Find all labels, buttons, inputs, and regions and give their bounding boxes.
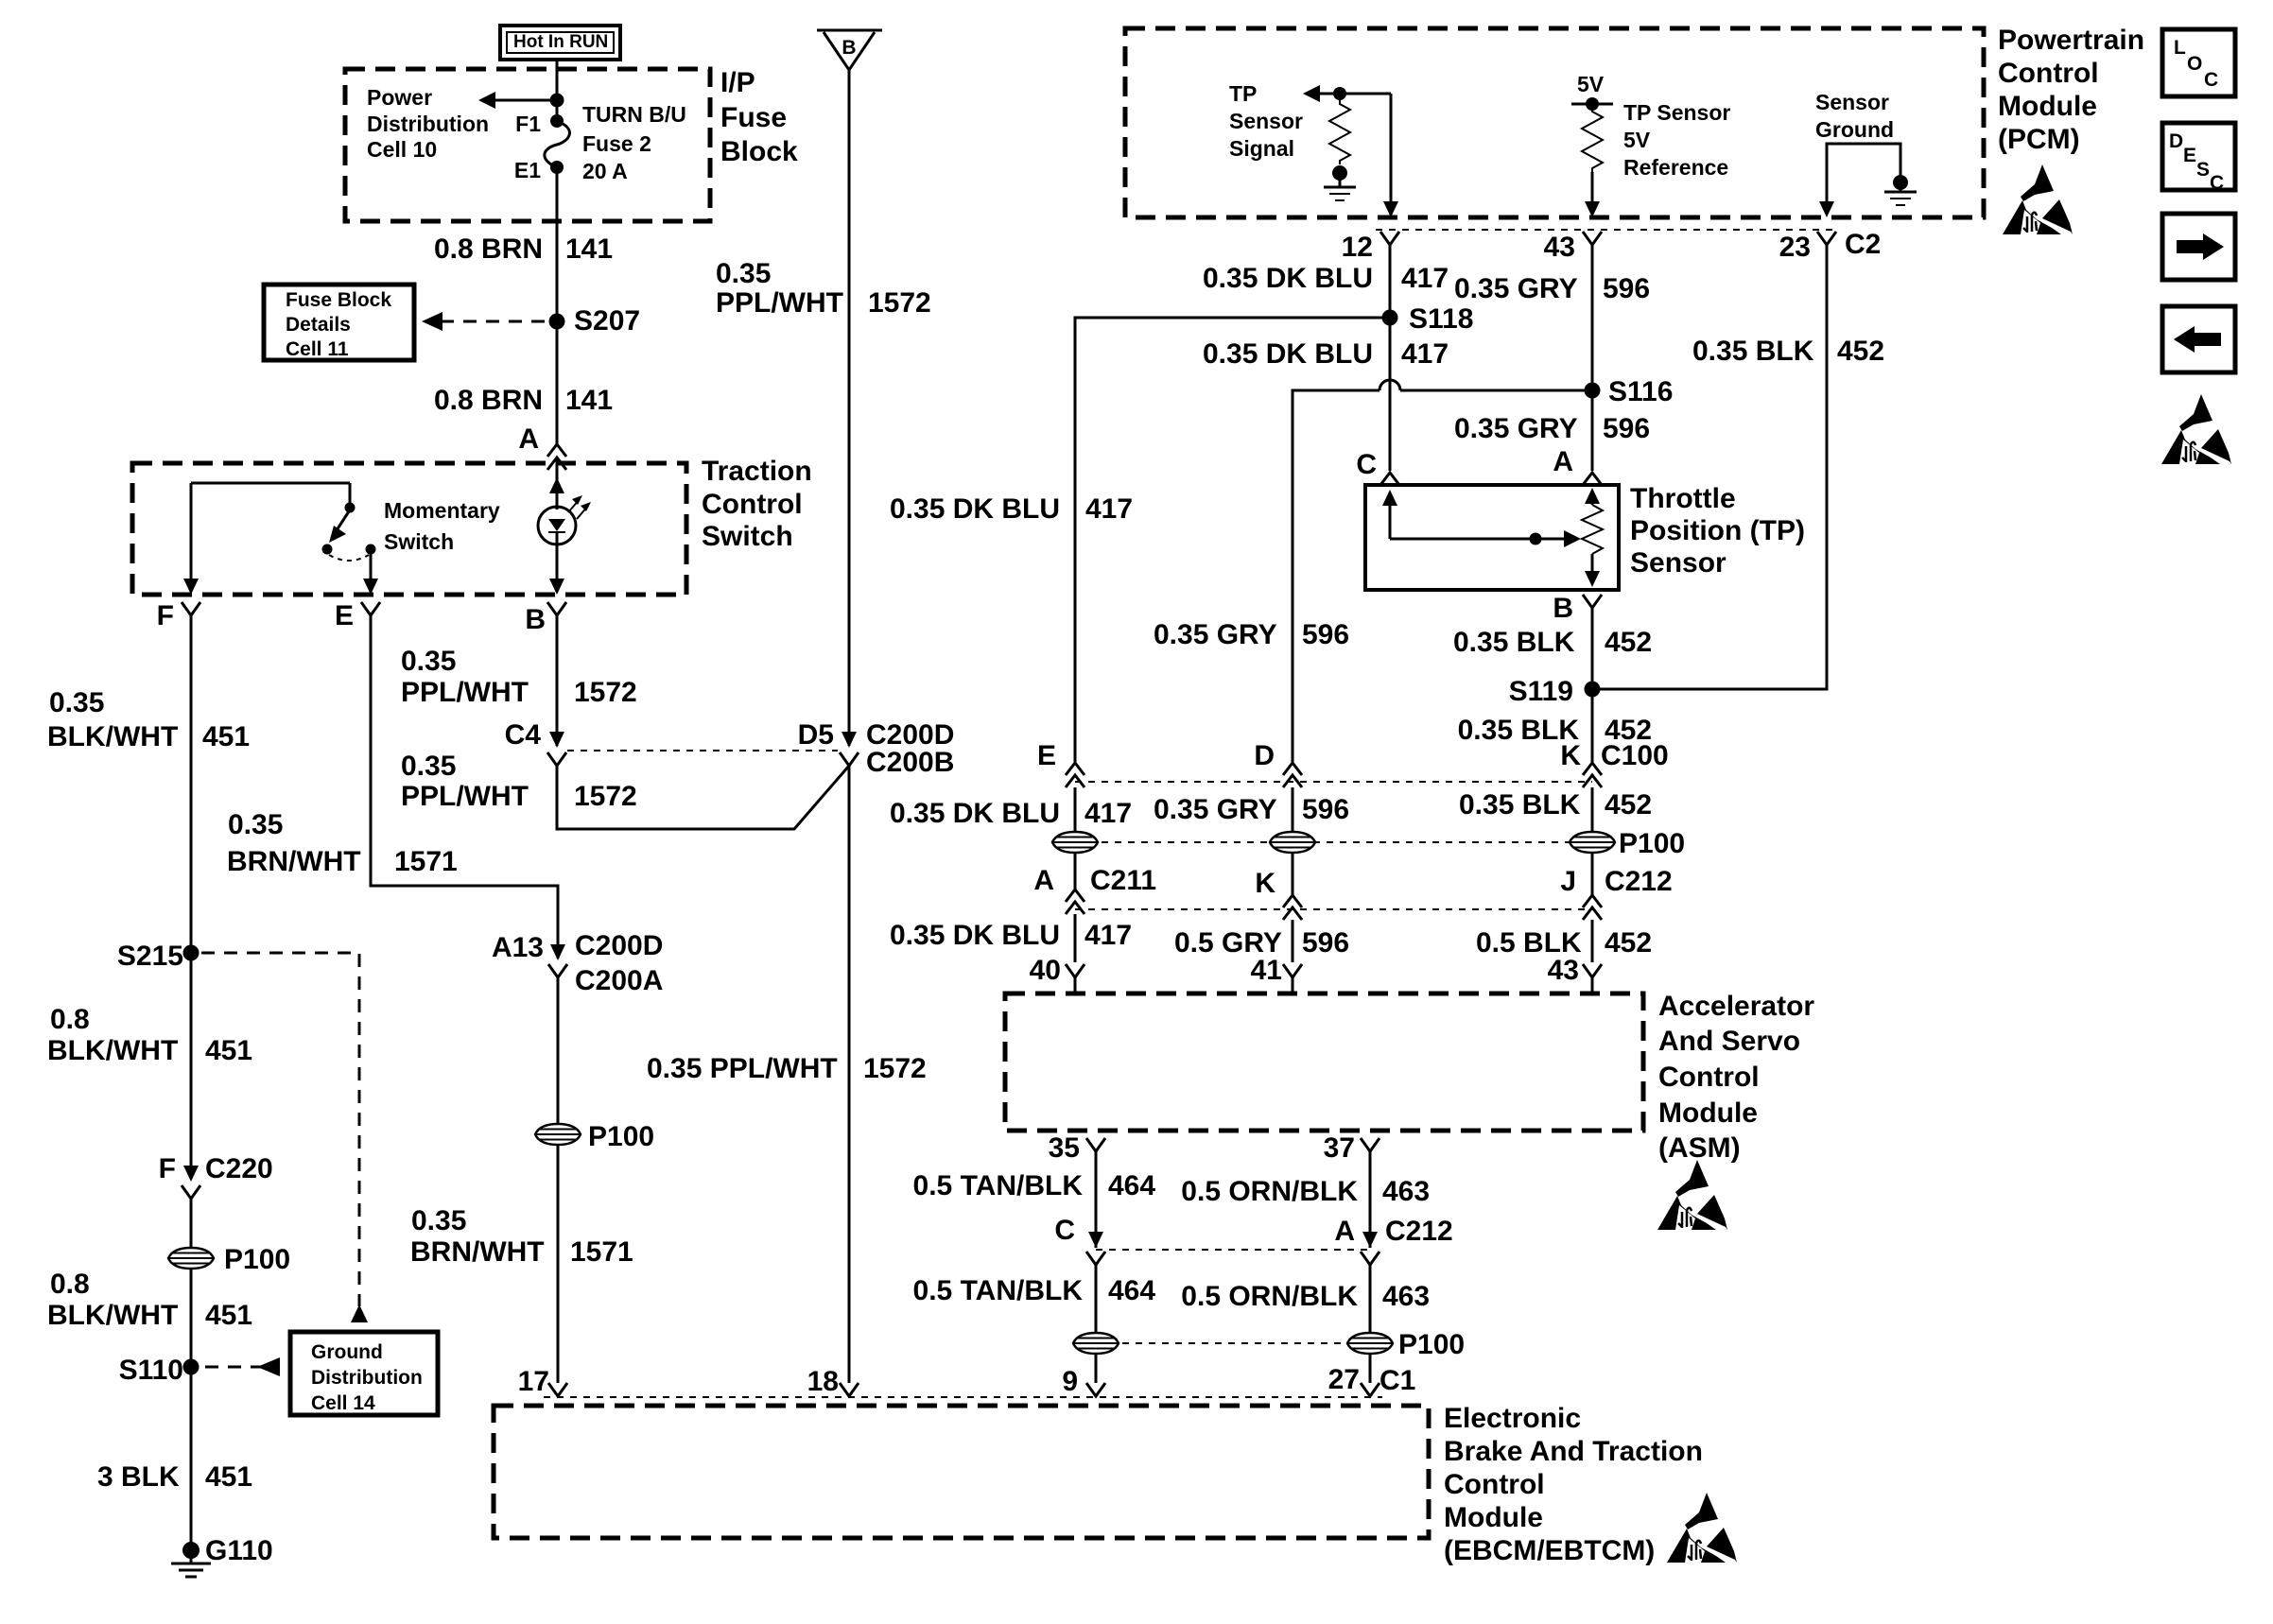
svg-text:C200B: C200B <box>866 747 954 778</box>
wire 463 C212 to EBCM pin 27 <box>1369 1265 1372 1383</box>
svg-text:C212: C212 <box>1385 1216 1453 1247</box>
svg-text:596: 596 <box>1302 794 1349 825</box>
svg-text:417: 417 <box>1084 920 1132 951</box>
svg-text:451: 451 <box>205 1300 252 1331</box>
svg-text:Block: Block <box>720 136 798 167</box>
svg-text:Module: Module <box>1998 91 2097 122</box>
label Traction Control Switch <box>702 456 812 552</box>
node junction at arrow <box>550 94 564 108</box>
svg-text:E: E <box>1037 740 1056 771</box>
svg-text:Signal: Signal <box>1229 136 1294 161</box>
pin C TP sensor <box>1356 449 1399 485</box>
label Electronic Brake And Traction Control Module EBCM EBTCM <box>1444 1403 1703 1566</box>
svg-text:41: 41 <box>1251 955 1282 986</box>
svg-text:O: O <box>2187 53 2202 75</box>
svg-text:P100: P100 <box>224 1244 290 1275</box>
svg-text:C2: C2 <box>1845 229 1881 260</box>
pin A C211 <box>1033 865 1156 914</box>
ground G110 <box>171 1535 273 1577</box>
svg-text:BLK/WHT: BLK/WHT <box>47 721 178 752</box>
module box I/P Fuse Block <box>345 69 710 221</box>
pass-through P100 on 452 <box>1570 828 1685 859</box>
svg-text:C211: C211 <box>1090 865 1156 896</box>
svg-text:0.35 DK BLU: 0.35 DK BLU <box>1203 338 1373 370</box>
svg-text:452: 452 <box>1605 627 1652 658</box>
wire 1572 from triangle B down <box>848 70 851 746</box>
pin B TP sensor <box>1553 593 1602 624</box>
label 0.35 BRN/WHT 1571 upper <box>227 809 458 877</box>
label C200D C200B <box>866 719 954 778</box>
svg-text:PPL/WHT: PPL/WHT <box>401 781 529 812</box>
resistor TP sensor signal pull-up <box>1329 100 1350 164</box>
wire 452 TP pin B to S119 <box>1591 608 1594 689</box>
svg-text:BRN/WHT: BRN/WHT <box>227 846 361 877</box>
internal wire 5V reference pin 43 <box>1585 172 1600 217</box>
svg-text:Hot In RUN: Hot In RUN <box>513 32 608 52</box>
label 0.35 BLK/WHT 451 <box>47 687 250 752</box>
svg-text:Control: Control <box>1658 1062 1760 1093</box>
svg-text:1572: 1572 <box>863 1053 927 1084</box>
node junction TP signal resistor <box>1333 87 1346 100</box>
svg-text:Cell 14: Cell 14 <box>311 1392 375 1414</box>
svg-text:0.35 DK BLU: 0.35 DK BLU <box>890 920 1060 951</box>
svg-text:417: 417 <box>1401 263 1449 294</box>
label 0.5 ORN/BLK 463 lower <box>1181 1281 1430 1312</box>
label Accelerator And Servo Control Module ASM <box>1658 991 1814 1164</box>
svg-text:27: 27 <box>1328 1364 1360 1395</box>
svg-text:452: 452 <box>1837 336 1884 367</box>
svg-text:D5: D5 <box>798 719 834 751</box>
node S118 <box>1382 303 1474 335</box>
svg-text:40: 40 <box>1030 955 1061 986</box>
wire 417 pin 12 to S118 <box>1389 245 1392 318</box>
label box Fuse Block Details Cell 11 <box>264 285 414 360</box>
label 0.35 DK BLU 417 fifth <box>890 920 1132 951</box>
svg-text:Reference: Reference <box>1623 155 1728 180</box>
svg-text:Switch: Switch <box>384 529 454 554</box>
wire 596 pin 43 to S116 <box>1591 245 1594 390</box>
pin J C212 <box>1560 866 1672 920</box>
svg-text:E1: E1 <box>514 158 541 182</box>
svg-text:464: 464 <box>1108 1275 1155 1306</box>
svg-text:F1: F1 <box>515 112 541 136</box>
pass-through P100 center <box>535 1121 654 1152</box>
svg-text:0.5 ORN/BLK: 0.5 ORN/BLK <box>1181 1176 1358 1207</box>
node S119 <box>1509 676 1601 707</box>
svg-text:S119: S119 <box>1509 676 1573 707</box>
wire 1571 E column <box>371 615 558 959</box>
dashed reference wire S215 to ground distribution <box>201 953 368 1322</box>
svg-text:12: 12 <box>1342 232 1373 263</box>
svg-text:0.35 DK BLU: 0.35 DK BLU <box>890 493 1060 525</box>
svg-text:E: E <box>2183 145 2196 166</box>
5V supply bar <box>1571 97 1613 111</box>
svg-text:1572: 1572 <box>868 287 931 319</box>
label 0.35 PPL/WHT 1572 mid <box>647 1053 927 1084</box>
label 0.5 BLK 452 fifth <box>1476 927 1652 959</box>
svg-text:Sensor: Sensor <box>1229 109 1303 133</box>
wire 141 S207 to traction switch <box>556 321 559 444</box>
svg-text:0.35 DK BLU: 0.35 DK BLU <box>1203 263 1373 294</box>
wire 452 K to C212 <box>1591 787 1594 895</box>
svg-text:Sensor: Sensor <box>1815 90 1889 114</box>
svg-text:0.8: 0.8 <box>50 1004 90 1035</box>
label 0.35 BLK 452 first <box>1692 336 1884 367</box>
svg-text:464: 464 <box>1108 1170 1155 1201</box>
svg-text:(PCM): (PCM) <box>1998 124 2080 155</box>
svg-text:TP Sensor: TP Sensor <box>1623 100 1730 125</box>
wire 452 C212 to ASM pin 43 <box>1591 920 1594 962</box>
pin 23 PCM <box>1779 232 1836 263</box>
svg-text:B: B <box>525 604 546 635</box>
svg-text:C220: C220 <box>205 1153 273 1184</box>
svg-text:0.35: 0.35 <box>228 809 283 840</box>
svg-text:Details: Details <box>286 314 351 336</box>
wire LED to pin B <box>556 544 559 579</box>
label 0.35 GRY 596 second <box>1454 413 1650 444</box>
wire 451 C220 to P100 <box>190 1199 193 1367</box>
wire from F leg inside switch <box>190 483 193 579</box>
svg-text:Power: Power <box>367 85 432 110</box>
svg-text:Throttle: Throttle <box>1630 483 1736 514</box>
wire 417 S118 branch to E column <box>1075 318 1390 762</box>
svg-text:0.35: 0.35 <box>401 646 456 677</box>
label 3 BLK 451 <box>97 1461 252 1493</box>
svg-text:A: A <box>1334 1216 1355 1247</box>
svg-text:0.35: 0.35 <box>716 258 771 289</box>
node S207 <box>549 305 641 337</box>
svg-text:BLK/WHT: BLK/WHT <box>47 1035 178 1066</box>
svg-text:Distribution: Distribution <box>311 1367 423 1389</box>
pin 43 PCM <box>1544 232 1602 263</box>
pin A C212 <box>1334 1216 1452 1265</box>
resistor TP sensor element <box>1582 488 1603 587</box>
pin 41 ASM <box>1251 955 1302 993</box>
svg-text:C100: C100 <box>1601 740 1669 771</box>
svg-text:452: 452 <box>1605 789 1652 821</box>
node S116 <box>1585 376 1674 407</box>
svg-text:Ground: Ground <box>311 1341 383 1363</box>
label 0.35 PPL/WHT 1572 at pin B <box>401 646 637 708</box>
label Sensor Ground <box>1815 90 1894 142</box>
label 0.5 TAN/BLK 464 lower <box>913 1275 1156 1306</box>
wire 417 E to C211 <box>1074 787 1077 890</box>
svg-text:0.35 PPL/WHT: 0.35 PPL/WHT <box>647 1053 838 1084</box>
label 0.5 GRY 596 fifth <box>1174 927 1349 959</box>
label 0.35 DK BLU 417 second <box>1203 338 1449 370</box>
svg-text:18: 18 <box>807 1366 839 1397</box>
pin K C211 <box>1255 868 1302 920</box>
label Throttle Position TP Sensor <box>1630 483 1805 579</box>
wire 417 S118 to TP sensor pin C <box>1389 318 1392 471</box>
wire jumper C4 to D5 <box>557 766 849 829</box>
svg-text:B: B <box>1553 593 1573 624</box>
svg-text:Momentary: Momentary <box>384 498 500 523</box>
wire 463 pin 37 to C212 <box>1369 1151 1372 1248</box>
svg-text:S215: S215 <box>117 941 183 972</box>
label TURN B/U Fuse 2 20 A <box>582 102 686 183</box>
svg-text:0.35: 0.35 <box>49 687 104 718</box>
svg-text:C: C <box>1054 1215 1075 1246</box>
connector face C2 <box>1376 229 1839 231</box>
node S215 <box>117 941 200 972</box>
svg-text:(EBCM/EBTCM): (EBCM/EBTCM) <box>1444 1535 1655 1566</box>
svg-text:C200A: C200A <box>575 965 663 996</box>
pin 17 EBCM <box>518 1366 567 1397</box>
svg-text:Ground: Ground <box>1815 117 1894 142</box>
label 0.35 PPL/WHT 1572 below C4 <box>401 751 637 812</box>
svg-text:452: 452 <box>1605 927 1652 959</box>
svg-text:0.35 BLK: 0.35 BLK <box>1459 789 1581 821</box>
svg-text:0.35: 0.35 <box>401 751 456 782</box>
pin 9 EBCM <box>1062 1366 1105 1397</box>
module box Accelerator And Servo Control Module ASM <box>1005 993 1643 1131</box>
label 0.35 GRY 596 first <box>1454 273 1650 304</box>
label 0.35 PPL/WHT 1572 top <box>716 258 931 319</box>
svg-text:C: C <box>2210 172 2224 194</box>
pin F1 <box>515 112 564 136</box>
svg-text:Fuse 2: Fuse 2 <box>582 131 651 156</box>
component box Throttle Position Sensor <box>1365 485 1619 590</box>
connector C220 pin F <box>159 1153 273 1199</box>
svg-text:F: F <box>157 600 174 631</box>
connector face C200D C200B <box>567 750 838 752</box>
module box Traction Control Switch <box>132 463 686 595</box>
wire 451 F column upper <box>190 615 193 953</box>
svg-text:Fuse: Fuse <box>720 102 787 133</box>
pin E C100 <box>1037 740 1084 787</box>
svg-text:Brake And Traction: Brake And Traction <box>1444 1436 1703 1467</box>
svg-text:Module: Module <box>1444 1502 1543 1533</box>
svg-text:0.35 DK BLU: 0.35 DK BLU <box>890 798 1060 829</box>
svg-text:A13: A13 <box>492 932 544 963</box>
svg-text:596: 596 <box>1603 413 1650 444</box>
arrow to power distribution <box>478 92 557 109</box>
svg-text:P100: P100 <box>1398 1329 1465 1360</box>
pass-through P100 on 596 <box>1270 832 1315 853</box>
svg-text:596: 596 <box>1302 927 1349 959</box>
node S110 <box>119 1355 200 1386</box>
label 0.35 BLK 452 third <box>1458 715 1652 746</box>
svg-text:K: K <box>1560 740 1581 771</box>
pin 12 PCM <box>1342 232 1399 263</box>
svg-text:5V: 5V <box>1623 128 1651 152</box>
label 0.8 BLK/WHT 451 lower <box>47 1269 252 1331</box>
connector C200 pin C4 <box>505 719 566 766</box>
svg-text:C: C <box>1356 449 1377 480</box>
legend box LOC <box>2162 29 2235 96</box>
pin A traction control switch <box>518 423 566 505</box>
legend box DESC <box>2162 123 2235 194</box>
svg-text:C: C <box>2204 69 2218 91</box>
wire 464 pin 35 to C212 <box>1095 1151 1098 1248</box>
pass-through P100 on 463 <box>1347 1329 1465 1360</box>
wire 1572 D5 to pin 18 <box>848 766 851 1383</box>
svg-text:35: 35 <box>1049 1132 1080 1164</box>
svg-text:P100: P100 <box>1619 828 1685 859</box>
svg-text:B: B <box>842 37 856 59</box>
svg-text:596: 596 <box>1603 273 1650 304</box>
svg-text:5V: 5V <box>1577 72 1605 96</box>
pin 27 EBCM <box>1328 1364 1416 1396</box>
pass-through P100 row dashed line <box>1075 841 1592 843</box>
svg-text:D: D <box>2169 130 2183 152</box>
pin 40 ASM <box>1030 955 1084 993</box>
label 0.35 BRN/WHT 1571 lower <box>410 1205 633 1268</box>
svg-text:0.35 GRY: 0.35 GRY <box>1154 619 1277 650</box>
svg-text:A: A <box>518 423 539 455</box>
label 0.35 DK BLU 417 first <box>1203 263 1449 294</box>
svg-text:And Servo: And Servo <box>1658 1026 1800 1057</box>
svg-text:Switch: Switch <box>702 521 793 552</box>
svg-text:Fuse Block: Fuse Block <box>286 289 391 311</box>
pin 35 ASM <box>1049 1132 1105 1164</box>
momentary switch <box>191 483 376 579</box>
ESD symbol ASM <box>1657 1160 1727 1230</box>
label 0.35 DK BLU 417 fourth <box>890 798 1132 829</box>
off-page triangle B <box>817 30 882 70</box>
svg-text:0.8: 0.8 <box>50 1269 90 1300</box>
wire 596 D to C211 <box>1292 787 1294 895</box>
label 0.35 GRY 596 third <box>1154 619 1349 650</box>
svg-text:Control: Control <box>702 489 803 520</box>
pin K C100 <box>1560 740 1668 787</box>
label TP Sensor Signal <box>1229 81 1303 161</box>
wire 1571 A13 to P100 <box>557 977 560 1383</box>
pin 37 ASM <box>1324 1132 1379 1164</box>
svg-text:Sensor: Sensor <box>1630 547 1726 579</box>
fuse TURN B/U Fuse 2 20 A <box>545 121 570 167</box>
svg-text:0.35 GRY: 0.35 GRY <box>1454 413 1578 444</box>
label 0.8 BLK/WHT 451 upper <box>47 1004 252 1066</box>
svg-text:Cell 10: Cell 10 <box>367 137 437 162</box>
ground internal PCM left <box>1324 165 1356 200</box>
svg-text:BLK/WHT: BLK/WHT <box>47 1300 178 1331</box>
svg-text:596: 596 <box>1302 619 1349 650</box>
svg-text:Control: Control <box>1444 1469 1545 1500</box>
svg-text:PPL/WHT: PPL/WHT <box>716 287 843 319</box>
svg-text:Electronic: Electronic <box>1444 1403 1581 1434</box>
TP sensor wiper <box>1382 490 1581 547</box>
svg-text:1571: 1571 <box>570 1236 633 1268</box>
svg-text:43: 43 <box>1544 232 1575 263</box>
svg-text:463: 463 <box>1382 1281 1430 1312</box>
svg-text:0.8 BRN: 0.8 BRN <box>434 385 543 416</box>
svg-text:S118: S118 <box>1409 303 1473 335</box>
pass-through P100 on 464 <box>1073 1333 1119 1354</box>
pass-through P100 lower dashed line <box>1096 1342 1370 1344</box>
svg-text:9: 9 <box>1062 1366 1078 1397</box>
svg-text:0.5 TAN/BLK: 0.5 TAN/BLK <box>913 1275 1084 1306</box>
wire 452 pin 23 down to S119 <box>1592 245 1827 689</box>
pass-through P100 on 417 <box>1052 832 1098 853</box>
legend ESD symbol <box>2161 394 2231 464</box>
label 0.8 BRN 141 lower <box>434 385 613 416</box>
svg-text:0.35 BLK: 0.35 BLK <box>1453 627 1575 658</box>
svg-text:C4: C4 <box>505 719 542 751</box>
svg-text:0.35 GRY: 0.35 GRY <box>1154 794 1277 825</box>
wire from Hot In RUN into fuse block <box>556 60 559 121</box>
svg-text:1571: 1571 <box>394 846 458 877</box>
svg-text:C200D: C200D <box>575 930 663 961</box>
label 0.35 DK BLU 417 third <box>890 493 1133 525</box>
svg-text:17: 17 <box>518 1366 549 1397</box>
pin 43 ASM <box>1548 955 1602 993</box>
label Powertrain Control Module PCM <box>1998 25 2144 155</box>
resistor TP sensor 5V reference <box>1582 108 1603 172</box>
svg-text:451: 451 <box>205 1035 252 1066</box>
pin E exit <box>335 579 380 631</box>
svg-text:Distribution: Distribution <box>367 112 489 136</box>
connector face C211 C212 <box>1075 908 1592 910</box>
svg-text:451: 451 <box>205 1461 252 1493</box>
module box Powertrain Control Module PCM <box>1125 28 1984 217</box>
wire 141 fuse to S207 <box>556 167 559 321</box>
label TP Sensor 5V Reference <box>1623 100 1730 180</box>
svg-text:0.5 ORN/BLK: 0.5 ORN/BLK <box>1181 1281 1358 1312</box>
label 0.35 GRY 596 fourth <box>1154 794 1349 825</box>
svg-text:Accelerator: Accelerator <box>1658 991 1814 1022</box>
pin F exit <box>157 579 200 631</box>
pin C C212 <box>1054 1215 1105 1265</box>
svg-text:C1: C1 <box>1379 1365 1415 1396</box>
svg-text:463: 463 <box>1382 1176 1430 1207</box>
svg-text:K: K <box>1255 868 1275 899</box>
svg-text:S116: S116 <box>1608 376 1673 407</box>
svg-text:A: A <box>1553 446 1573 477</box>
svg-text:43: 43 <box>1548 955 1579 986</box>
wire 596 C211 to ASM pin 41 <box>1292 920 1294 962</box>
svg-text:L: L <box>2174 37 2186 59</box>
svg-text:Powertrain: Powertrain <box>1998 25 2144 56</box>
svg-text:C212: C212 <box>1605 866 1673 897</box>
svg-text:Control: Control <box>1998 58 2099 89</box>
svg-text:0.35 BLK: 0.35 BLK <box>1692 336 1814 367</box>
ESD symbol PCM <box>2003 164 2073 234</box>
wire 464 C212 to EBCM pin 9 <box>1095 1265 1098 1383</box>
ground internal PCM right <box>1884 175 1917 205</box>
svg-text:23: 23 <box>1779 232 1811 263</box>
wire 451 S110 to G110 <box>190 1367 193 1547</box>
legend box arrow right <box>2162 214 2235 280</box>
connector C200D C200A pin A13 <box>492 930 663 996</box>
svg-text:J: J <box>1560 866 1576 897</box>
svg-text:Position (TP): Position (TP) <box>1630 515 1805 546</box>
connector face C212 lower <box>1096 1249 1370 1251</box>
label 0.35 BLK 452 fourth <box>1459 789 1652 821</box>
svg-text:417: 417 <box>1085 493 1133 525</box>
wire 596 S116 branch to D column with hop <box>1293 380 1592 762</box>
label Momentary Switch <box>384 498 500 554</box>
wire 451 S215 to C220 <box>190 953 193 1179</box>
svg-text:A: A <box>1033 865 1054 896</box>
svg-text:E: E <box>335 600 354 631</box>
svg-text:S110: S110 <box>119 1355 183 1386</box>
svg-text:141: 141 <box>565 385 613 416</box>
label 0.5 TAN/BLK 464 upper <box>913 1170 1156 1201</box>
svg-text:417: 417 <box>1401 338 1449 370</box>
svg-text:20 A: 20 A <box>582 159 628 183</box>
LED indicator <box>538 492 591 544</box>
svg-text:0.35: 0.35 <box>411 1205 466 1236</box>
internal wire TP sensor signal pin 12 <box>1303 85 1398 217</box>
svg-text:S207: S207 <box>574 305 640 337</box>
label 0.35 BLK 452 second <box>1453 627 1652 658</box>
svg-text:Traction: Traction <box>702 456 812 487</box>
svg-text:1572: 1572 <box>574 677 637 708</box>
connector C200 pin D5 <box>798 719 859 766</box>
wire 452 S119 to C100 <box>1591 689 1594 762</box>
